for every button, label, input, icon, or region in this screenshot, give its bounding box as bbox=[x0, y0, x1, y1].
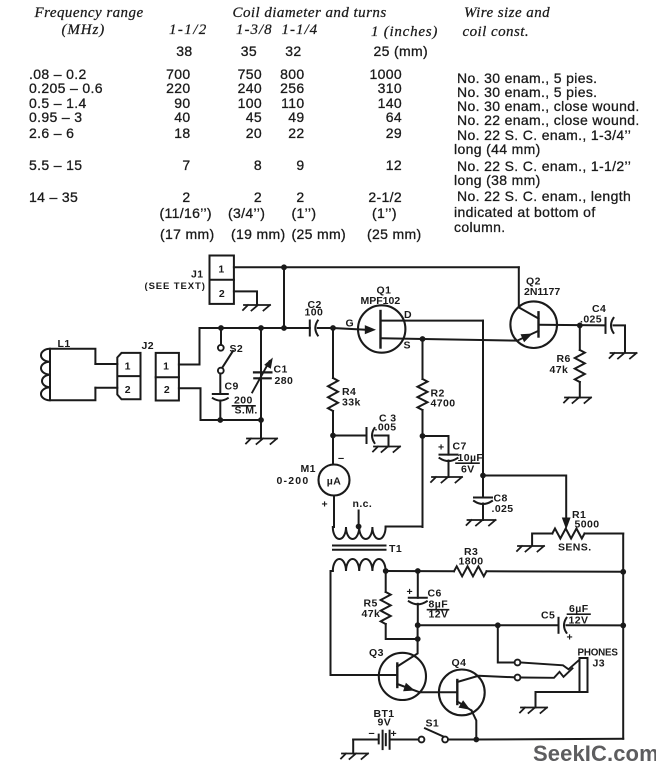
svg-text:12V: 12V bbox=[569, 615, 589, 627]
svg-text:4700: 4700 bbox=[431, 398, 456, 410]
wire S1 to emitter node bbox=[448, 739, 476, 741]
ground C7 bbox=[431, 477, 462, 483]
resistor R2 bbox=[422, 339, 424, 379]
wire S2 to C9 bbox=[219, 374, 221, 395]
wire top rail down to tank rail bbox=[283, 267, 285, 328]
variable capacitor C1 bbox=[260, 328, 262, 420]
svg-text:33k: 33k bbox=[342, 397, 361, 409]
capacitor C9 bbox=[213, 393, 228, 395]
svg-text:+: + bbox=[391, 728, 398, 740]
svg-text:–: – bbox=[338, 453, 345, 465]
junction Q3 collector top bbox=[415, 622, 421, 628]
svg-text:–: – bbox=[369, 728, 376, 740]
svg-text:S2: S2 bbox=[230, 343, 244, 355]
svg-text:MPF102: MPF102 bbox=[361, 295, 401, 307]
resistor R6 bbox=[579, 325, 581, 350]
capacitor C3 bbox=[333, 435, 367, 437]
wire J1 pin1 top rail to Q2 bbox=[234, 266, 519, 268]
ground battery bbox=[352, 740, 354, 754]
ground C8 bbox=[467, 520, 496, 526]
junction C1 top bbox=[258, 325, 264, 331]
wire Q1 drain bbox=[381, 320, 484, 322]
svg-text:S1: S1 bbox=[426, 718, 440, 730]
svg-text:n.c.: n.c. bbox=[353, 498, 373, 510]
junction center tap bbox=[356, 524, 362, 530]
junction R5 bottom bbox=[415, 636, 421, 642]
wire jack sleeve to ground bbox=[536, 692, 587, 708]
svg-text:D: D bbox=[404, 309, 412, 321]
svg-text:280: 280 bbox=[275, 375, 294, 387]
svg-text:0-200: 0-200 bbox=[277, 475, 310, 487]
junction top rail bbox=[281, 264, 287, 270]
svg-text:47k: 47k bbox=[550, 364, 569, 376]
ground R6 bbox=[564, 398, 591, 404]
wire drain down to C8 bbox=[482, 321, 484, 498]
connector J2 plug (male) bbox=[117, 353, 140, 399]
svg-text:2: 2 bbox=[219, 288, 225, 300]
svg-text:SENS.: SENS. bbox=[558, 542, 592, 554]
connector J1 bbox=[210, 256, 234, 304]
meter M1 bbox=[332, 436, 334, 465]
svg-text:6V: 6V bbox=[461, 464, 475, 476]
svg-text:6µF: 6µF bbox=[569, 603, 589, 615]
R1 left lead to ground bbox=[532, 534, 552, 546]
wire secondary left down to Q3 base bbox=[331, 571, 398, 675]
wire primary right to R2 line bbox=[386, 526, 423, 528]
svg-text:µA: µA bbox=[327, 476, 341, 488]
capacitor C5 electrolytic bbox=[558, 618, 560, 633]
junction R2 top bbox=[420, 336, 426, 342]
svg-text:C1: C1 bbox=[274, 364, 288, 376]
junction secondary right / R5 bbox=[383, 568, 389, 574]
bottom rail to right rail bbox=[476, 738, 623, 741]
junction C9 bottom bbox=[217, 417, 223, 423]
svg-text:+: + bbox=[322, 499, 329, 511]
wire sens node to R1 wiper bbox=[483, 476, 566, 520]
svg-text:S: S bbox=[404, 340, 411, 352]
svg-text:S.M.: S.M. bbox=[235, 405, 258, 417]
wire C6 bottom to C5 and right rail bbox=[418, 624, 559, 626]
wire nc center tap bbox=[358, 511, 360, 527]
wire secondary to C6/R3 bbox=[386, 570, 454, 572]
transformer T1 secondary bbox=[333, 559, 386, 571]
potentiometer R1 5000 bbox=[552, 529, 584, 539]
svg-text:L1: L1 bbox=[58, 338, 71, 350]
capacitor C6 electrolytic bbox=[417, 571, 419, 598]
phone jack contact 2 bbox=[515, 675, 521, 681]
svg-text:G: G bbox=[346, 318, 355, 330]
battery BT1 9V bbox=[353, 739, 378, 741]
wire Q2 collector from top rail bbox=[518, 267, 520, 307]
svg-text:1: 1 bbox=[125, 361, 131, 373]
svg-text:J3: J3 bbox=[593, 658, 605, 670]
wire Q3 emitter to Q4 base bbox=[420, 691, 458, 693]
junction bottom rail bbox=[473, 737, 479, 743]
svg-text:C9: C9 bbox=[225, 381, 239, 393]
svg-text:(SEE TEXT): (SEE TEXT) bbox=[145, 281, 206, 292]
switch S1 bbox=[419, 737, 425, 743]
junction right rail R3 bbox=[620, 569, 626, 575]
wire L1 to J2 plug pin 1 bbox=[95, 363, 117, 365]
svg-text:Q4: Q4 bbox=[452, 657, 467, 669]
svg-text:2: 2 bbox=[125, 384, 131, 396]
wire M1 to transformer bbox=[333, 496, 335, 528]
junction S2 top bbox=[218, 325, 224, 331]
connector J2 jack (female) bbox=[156, 353, 179, 401]
svg-text:J1: J1 bbox=[191, 269, 203, 281]
svg-text:Q3: Q3 bbox=[369, 647, 384, 659]
R1 right lead to right rail bbox=[585, 533, 624, 535]
ground tank circuit bbox=[260, 420, 262, 439]
phone jack J3 body bbox=[580, 658, 588, 692]
svg-text:T1: T1 bbox=[389, 543, 402, 555]
tank bottom rail bbox=[201, 419, 262, 421]
junction gate node bbox=[330, 325, 336, 331]
transformer T1 core bbox=[333, 545, 386, 547]
Q4 emitter bbox=[457, 702, 471, 711]
svg-text:10µF: 10µF bbox=[458, 452, 484, 464]
inductor L1 bbox=[50, 349, 95, 401]
junction R2 bottom bbox=[420, 433, 426, 439]
junction C1 bottom bbox=[258, 417, 264, 423]
wire Q1 source to Q2 emitter bbox=[381, 338, 518, 340]
svg-text:1: 1 bbox=[218, 264, 224, 276]
junction J1 drop bbox=[281, 325, 287, 331]
junction phones drop bbox=[495, 622, 501, 628]
junction R4 bottom / meter node bbox=[330, 433, 336, 439]
watermark SeekIC.com bbox=[533, 741, 656, 767]
resistor R3 1800 bbox=[454, 566, 487, 576]
transistor Q4 bbox=[439, 670, 485, 716]
wire R2 to transformer primary bbox=[422, 436, 424, 527]
capacitor C7 electrolytic bbox=[440, 454, 458, 456]
svg-text:.005: .005 bbox=[375, 422, 397, 434]
wire phones contact 1 drop bbox=[498, 625, 515, 662]
transistor Q2 2N1177 bbox=[510, 301, 557, 348]
resistor R5 47k bbox=[385, 571, 387, 592]
ground R1 bbox=[517, 546, 544, 552]
wire L1 to J2 plug pin 2 bbox=[95, 387, 117, 389]
capacitor C8 bbox=[474, 497, 492, 499]
svg-text:12V: 12V bbox=[429, 609, 449, 621]
JFET Q1 MPF102 bbox=[358, 305, 405, 352]
svg-text:1: 1 bbox=[163, 361, 169, 373]
wire R3 to right rail bbox=[487, 570, 624, 573]
svg-text:+: + bbox=[438, 442, 445, 454]
right rail bbox=[622, 534, 624, 739]
ground jack bbox=[520, 708, 547, 714]
wire gate node to Q1 G bbox=[333, 328, 365, 330]
wire J2 pin2 down to tank bottom rail bbox=[179, 388, 201, 420]
tank top rail bbox=[200, 327, 310, 329]
Q3 collector bbox=[397, 625, 417, 666]
capacitor C2 bbox=[309, 321, 311, 336]
svg-text:C7: C7 bbox=[453, 441, 467, 453]
transformer T1 primary bbox=[333, 527, 386, 539]
svg-text:1800: 1800 bbox=[459, 556, 484, 568]
wire J2 pin1 up to tank rail bbox=[179, 328, 200, 365]
resistor R4 bbox=[332, 328, 334, 378]
ground J1 pin 2 bbox=[243, 305, 270, 311]
svg-text:47k: 47k bbox=[362, 608, 381, 620]
svg-text:C5: C5 bbox=[541, 610, 555, 622]
svg-text:.025: .025 bbox=[580, 314, 602, 326]
svg-text:5000: 5000 bbox=[575, 519, 600, 531]
svg-text:.025: .025 bbox=[492, 503, 514, 515]
wire Q2 base lead bbox=[539, 324, 606, 327]
junction right rail C5 bbox=[620, 623, 626, 629]
Q4 collector bbox=[457, 676, 514, 682]
Q3 emitter bbox=[397, 684, 420, 692]
transistor Q3 bbox=[379, 653, 426, 700]
wire R2 bottom to C7 bbox=[423, 436, 449, 455]
junction C6 top bbox=[415, 568, 421, 574]
switch S2 bbox=[220, 328, 222, 345]
potentiometer R1 wiper arrow bbox=[562, 518, 571, 530]
junction sens node bbox=[480, 473, 486, 479]
capacitor C4 bbox=[605, 318, 607, 333]
phone jack contact 1 bbox=[515, 660, 521, 666]
svg-text:2N1177: 2N1177 bbox=[524, 286, 560, 298]
ground C4 bbox=[610, 353, 637, 359]
svg-text:9V: 9V bbox=[378, 717, 392, 729]
svg-text:J2: J2 bbox=[142, 340, 154, 352]
ground C3 bbox=[373, 447, 400, 453]
svg-text:2: 2 bbox=[164, 384, 170, 396]
svg-text:100: 100 bbox=[305, 307, 324, 319]
svg-text:M1: M1 bbox=[301, 463, 316, 475]
svg-text:+: + bbox=[407, 586, 414, 598]
wire J1 pin2 to ground bbox=[234, 291, 257, 305]
svg-text:+: + bbox=[567, 632, 574, 644]
junction Q2 base node bbox=[577, 323, 583, 329]
